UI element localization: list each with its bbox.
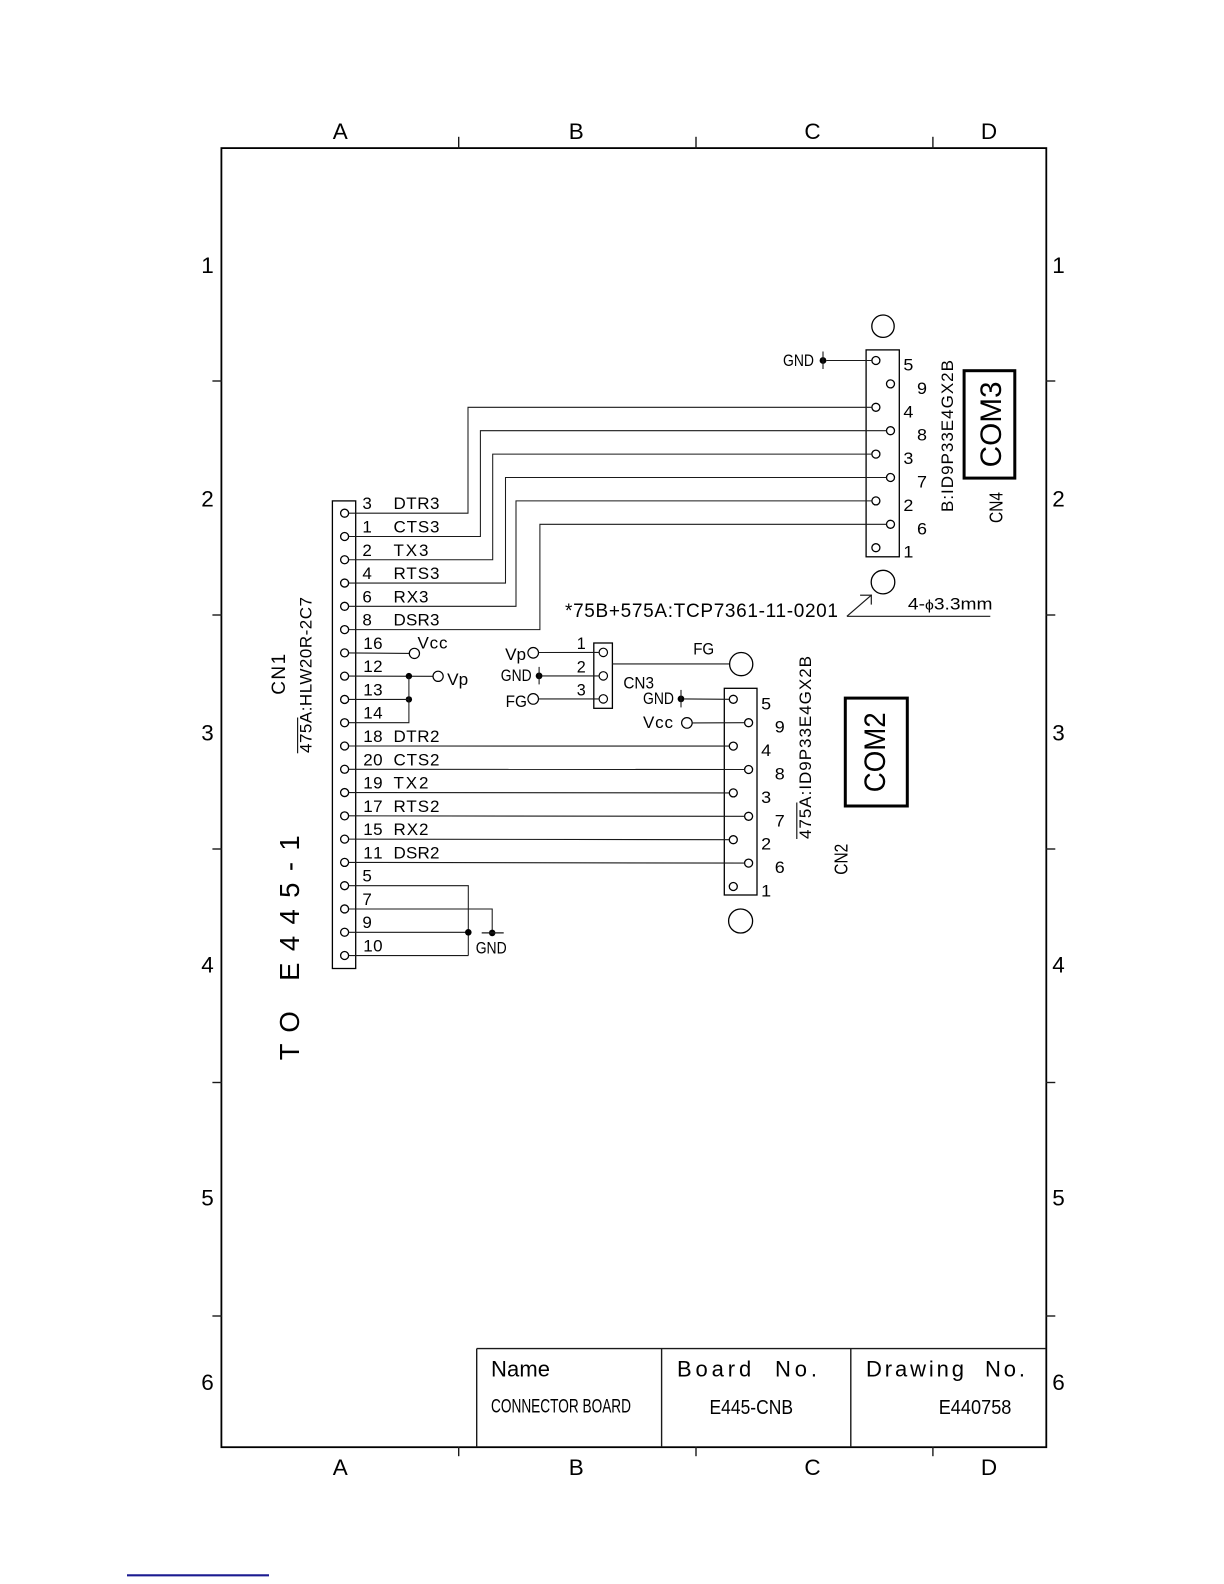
svg-text:C: C: [804, 119, 820, 144]
svg-text:6: 6: [917, 519, 927, 538]
svg-text:3: 3: [201, 721, 214, 746]
svg-text:CN4: CN4: [987, 492, 1007, 523]
svg-text:GND: GND: [476, 939, 507, 958]
svg-text:A: A: [333, 119, 348, 144]
wire DTR3 CN1 to CN4: [349, 407, 872, 513]
svg-text:CTS2: CTS2: [394, 750, 440, 769]
svg-text:1: 1: [201, 253, 214, 278]
svg-text:C: C: [804, 1455, 820, 1480]
wire CN1 pin 7 to GND: [349, 909, 493, 933]
pin label CN1 pin 11: [363, 843, 439, 862]
pin label CN1 pin 8: [362, 611, 439, 630]
svg-text:3: 3: [362, 494, 371, 513]
GND symbol at CN1: [476, 930, 507, 958]
svg-text:E445-CNB: E445-CNB: [710, 1397, 794, 1419]
wire CN1 pin 9: [349, 931, 469, 933]
connector CN3 pins: [599, 648, 607, 703]
svg-text:TO E445-1: TO E445-1: [274, 835, 305, 1060]
junction dot GND net: [465, 929, 472, 936]
pin label CN1 pin 9: [362, 913, 371, 932]
svg-text:COM3: COM3: [975, 381, 1008, 467]
svg-text:2: 2: [201, 487, 214, 512]
pin label CN1 pin 12: [363, 657, 382, 676]
wire CTS3 CN1 to CN4: [349, 431, 887, 537]
svg-text:RTS3: RTS3: [394, 564, 440, 583]
frame column ticks top: [459, 137, 933, 149]
row labels right 1-6: [1052, 253, 1065, 1395]
connector CN3 body: [594, 643, 613, 708]
frame row ticks left: [212, 381, 222, 1316]
svg-text:4: 4: [1052, 953, 1065, 978]
svg-text:2: 2: [1052, 487, 1065, 512]
svg-text:2: 2: [761, 835, 771, 854]
connector CN1 body: [332, 501, 355, 969]
pin label CN1 pin 3: [362, 494, 439, 513]
svg-text:9: 9: [917, 379, 927, 398]
svg-text:8: 8: [775, 765, 785, 784]
svg-text:Board No.: Board No.: [677, 1357, 817, 1382]
svg-text:CONNECTOR BOARD: CONNECTOR BOARD: [491, 1396, 631, 1418]
svg-text:GND: GND: [643, 689, 674, 708]
svg-text:DTR2: DTR2: [394, 727, 440, 746]
svg-text:475A:HLW20R-2C7: 475A:HLW20R-2C7: [297, 597, 316, 753]
wire CN1 pin 13: [349, 698, 409, 700]
svg-text:1: 1: [577, 634, 586, 653]
svg-text:7: 7: [775, 811, 785, 830]
svg-text:5: 5: [201, 1186, 214, 1211]
wire RX2 CN1 to CN2: [349, 838, 730, 841]
svg-text:2: 2: [903, 496, 913, 515]
FG terminal at CN3 pin 3: [506, 692, 600, 711]
pin label CN1 pin 7: [362, 890, 371, 909]
row labels left 1-6: [201, 253, 214, 1395]
svg-text:RTS2: RTS2: [394, 797, 440, 816]
COM2 box: [845, 698, 907, 806]
svg-text:*75B+575A:TCP7361-11-0201: *75B+575A:TCP7361-11-0201: [565, 601, 838, 622]
wire CN1 pin 10: [349, 955, 469, 957]
wire DTR2 CN1 to CN2: [349, 745, 730, 747]
svg-text:1: 1: [362, 517, 371, 536]
svg-text:FG: FG: [506, 692, 527, 711]
svg-text:14: 14: [363, 704, 382, 723]
wire TX2 CN1 to CN2: [349, 792, 730, 794]
svg-text:6: 6: [201, 1370, 214, 1395]
overline over 475A (CN1): [297, 718, 299, 754]
svg-text:DSR3: DSR3: [394, 611, 440, 630]
svg-text:17: 17: [363, 797, 382, 816]
svg-text:4: 4: [362, 564, 371, 583]
svg-text:8: 8: [362, 611, 371, 630]
svg-text:12: 12: [363, 657, 382, 676]
svg-text:GND: GND: [501, 666, 532, 685]
svg-text:16: 16: [363, 634, 382, 653]
svg-text:7: 7: [917, 473, 927, 492]
pin label CN1 pin 2: [362, 541, 428, 560]
label 475A:ID9P33E4GX2B (CN2 type): [796, 656, 815, 839]
svg-text:GND: GND: [783, 351, 814, 370]
svg-text:3: 3: [903, 449, 913, 468]
pin label CN1 pin 4: [362, 564, 439, 583]
label CN1 type 475A:HLW20R-2C7: [297, 597, 316, 753]
svg-text:TX2: TX2: [394, 774, 429, 793]
svg-text:Drawing No.: Drawing No.: [866, 1357, 1025, 1382]
svg-text:7: 7: [362, 890, 371, 909]
svg-text:18: 18: [363, 727, 382, 746]
svg-text:4: 4: [201, 953, 214, 978]
label CN1: [269, 654, 290, 695]
svg-text:B: B: [569, 1455, 584, 1480]
frame row ticks right: [1046, 381, 1056, 1316]
svg-text:RX2: RX2: [394, 820, 429, 839]
pin label CN1 pin 19: [363, 774, 428, 793]
Vcc terminal at CN1 pin 16: [349, 633, 448, 658]
GND terminal at CN2 pin 5: [643, 689, 729, 708]
wire CN1 pin 5: [349, 886, 469, 956]
svg-text:4: 4: [761, 741, 771, 760]
pin label CN1 pin 16: [363, 634, 382, 653]
svg-text:Name: Name: [491, 1357, 550, 1382]
svg-text:6: 6: [362, 587, 371, 606]
label B:ID9P33E4GX2B (CN4 type): [938, 360, 957, 512]
wire RTS2 CN1 to CN2: [349, 815, 745, 817]
wire TX3 CN1 to CN4: [349, 454, 872, 560]
svg-text:1: 1: [903, 543, 913, 562]
overline over 475A (CN2): [796, 803, 798, 840]
connector CN2 body: [724, 688, 757, 895]
blue underline mark bottom-left: [127, 1574, 269, 1576]
mounting hole below CN2: [729, 909, 753, 933]
pin label CN1 pin 5: [362, 867, 371, 886]
svg-text:E440758: E440758: [939, 1397, 1012, 1419]
pin label CN1 pin 6: [362, 587, 428, 606]
svg-text:3: 3: [577, 681, 586, 700]
wire DSR3 CN1 to CN4: [349, 524, 887, 629]
label CN2: [832, 844, 852, 875]
pin label CN1 pin 20: [363, 750, 439, 769]
svg-text:CN2: CN2: [832, 844, 852, 875]
column labels bottom A B C D: [333, 1455, 997, 1480]
svg-text:10: 10: [363, 937, 382, 956]
connector CN4 body: [866, 350, 899, 557]
pin label CN1 pin 15: [363, 820, 428, 839]
svg-text:6: 6: [775, 858, 785, 877]
svg-text:FG: FG: [693, 639, 714, 658]
title block: [477, 1349, 1047, 1448]
label CN4: [987, 492, 1007, 523]
wire DSR2 CN1 to CN2: [349, 861, 745, 864]
svg-text:8: 8: [917, 426, 927, 445]
svg-text:Vp: Vp: [447, 670, 468, 689]
svg-text:5: 5: [761, 694, 771, 713]
svg-text:4-ϕ3.3mm: 4-ϕ3.3mm: [908, 594, 993, 613]
COM3 box: [964, 371, 1015, 478]
svg-text:13: 13: [363, 680, 382, 699]
junction dot Vp net row 13: [406, 696, 412, 702]
label TO E445-1: [274, 835, 305, 1060]
frame column ticks bottom: [459, 1447, 933, 1457]
svg-text:1: 1: [1052, 253, 1065, 278]
svg-text:5: 5: [1052, 1186, 1065, 1211]
svg-text:5: 5: [362, 867, 371, 886]
connector CN4 pins: [872, 357, 895, 552]
pin label CN1 pin 14: [363, 704, 382, 723]
connector CN1 pins: [341, 509, 349, 959]
svg-text:TX3: TX3: [394, 541, 429, 560]
Vp terminal at CN1 pin 12: [349, 670, 469, 689]
svg-text:9: 9: [775, 718, 785, 737]
Vcc terminal at CN2 pin 9: [643, 713, 745, 732]
svg-text:2: 2: [577, 658, 586, 677]
svg-text:5: 5: [903, 356, 913, 375]
svg-text:B:ID9P33E4GX2B: B:ID9P33E4GX2B: [938, 360, 957, 512]
svg-text:20: 20: [363, 750, 382, 769]
svg-text:3: 3: [761, 788, 771, 807]
wire CN3 to FG mounting hole: [612, 663, 729, 665]
svg-text:3: 3: [1052, 721, 1065, 746]
svg-text:CN1: CN1: [269, 654, 290, 695]
svg-text:D: D: [981, 119, 997, 144]
mounting hole below CN4: [871, 570, 895, 594]
connector CN2 pins: [729, 695, 752, 890]
svg-text:475A:ID9P33E4GX2B: 475A:ID9P33E4GX2B: [796, 656, 815, 839]
svg-text:2: 2: [362, 541, 371, 560]
svg-text:11: 11: [363, 843, 382, 862]
svg-text:Vcc: Vcc: [418, 633, 449, 652]
svg-text:B: B: [569, 119, 584, 144]
svg-text:1: 1: [761, 882, 771, 901]
pin label CN1 pin 10: [363, 937, 382, 956]
column labels top A B C D: [333, 119, 997, 144]
pin label CN1 pin 1: [362, 517, 439, 536]
svg-text:D: D: [981, 1455, 997, 1480]
GND terminal at CN4 pin 5: [783, 351, 872, 370]
Vp terminal at CN3 pin 1: [505, 645, 599, 664]
wire CN1 pin 14: [349, 676, 409, 723]
pin label CN1 pin 17: [363, 797, 439, 816]
border frame: [221, 148, 1046, 1447]
wire CTS2 CN1 to CN2: [349, 768, 745, 770]
pin label CN1 pin 13: [363, 680, 382, 699]
svg-text:15: 15: [363, 820, 382, 839]
pin label CN1 pin 18: [363, 727, 439, 746]
svg-text:6: 6: [1052, 1370, 1065, 1395]
svg-text:RX3: RX3: [394, 587, 429, 606]
svg-text:9: 9: [362, 913, 371, 932]
COM3 text: [975, 381, 1008, 467]
svg-text:COM2: COM2: [859, 712, 892, 792]
svg-text:CTS3: CTS3: [394, 517, 440, 536]
GND terminal at CN3 pin 2: [501, 666, 600, 685]
svg-text:19: 19: [363, 774, 382, 793]
svg-text:DTR3: DTR3: [394, 494, 440, 513]
svg-text:DSR2: DSR2: [394, 843, 440, 862]
wire RX3 CN1 to CN4: [349, 501, 872, 606]
junction dot Vp net row 12: [406, 673, 412, 679]
svg-text:4: 4: [903, 402, 913, 421]
svg-text:Vcc: Vcc: [643, 713, 674, 732]
svg-text:A: A: [333, 1455, 348, 1480]
svg-text:Vp: Vp: [505, 645, 526, 664]
COM2 text: [859, 712, 892, 792]
FG mounting hole: [730, 653, 753, 676]
wire RTS3 CN1 to CN4: [349, 478, 887, 584]
leader line for hole size: [847, 595, 990, 617]
mounting hole above CN4: [872, 315, 894, 337]
